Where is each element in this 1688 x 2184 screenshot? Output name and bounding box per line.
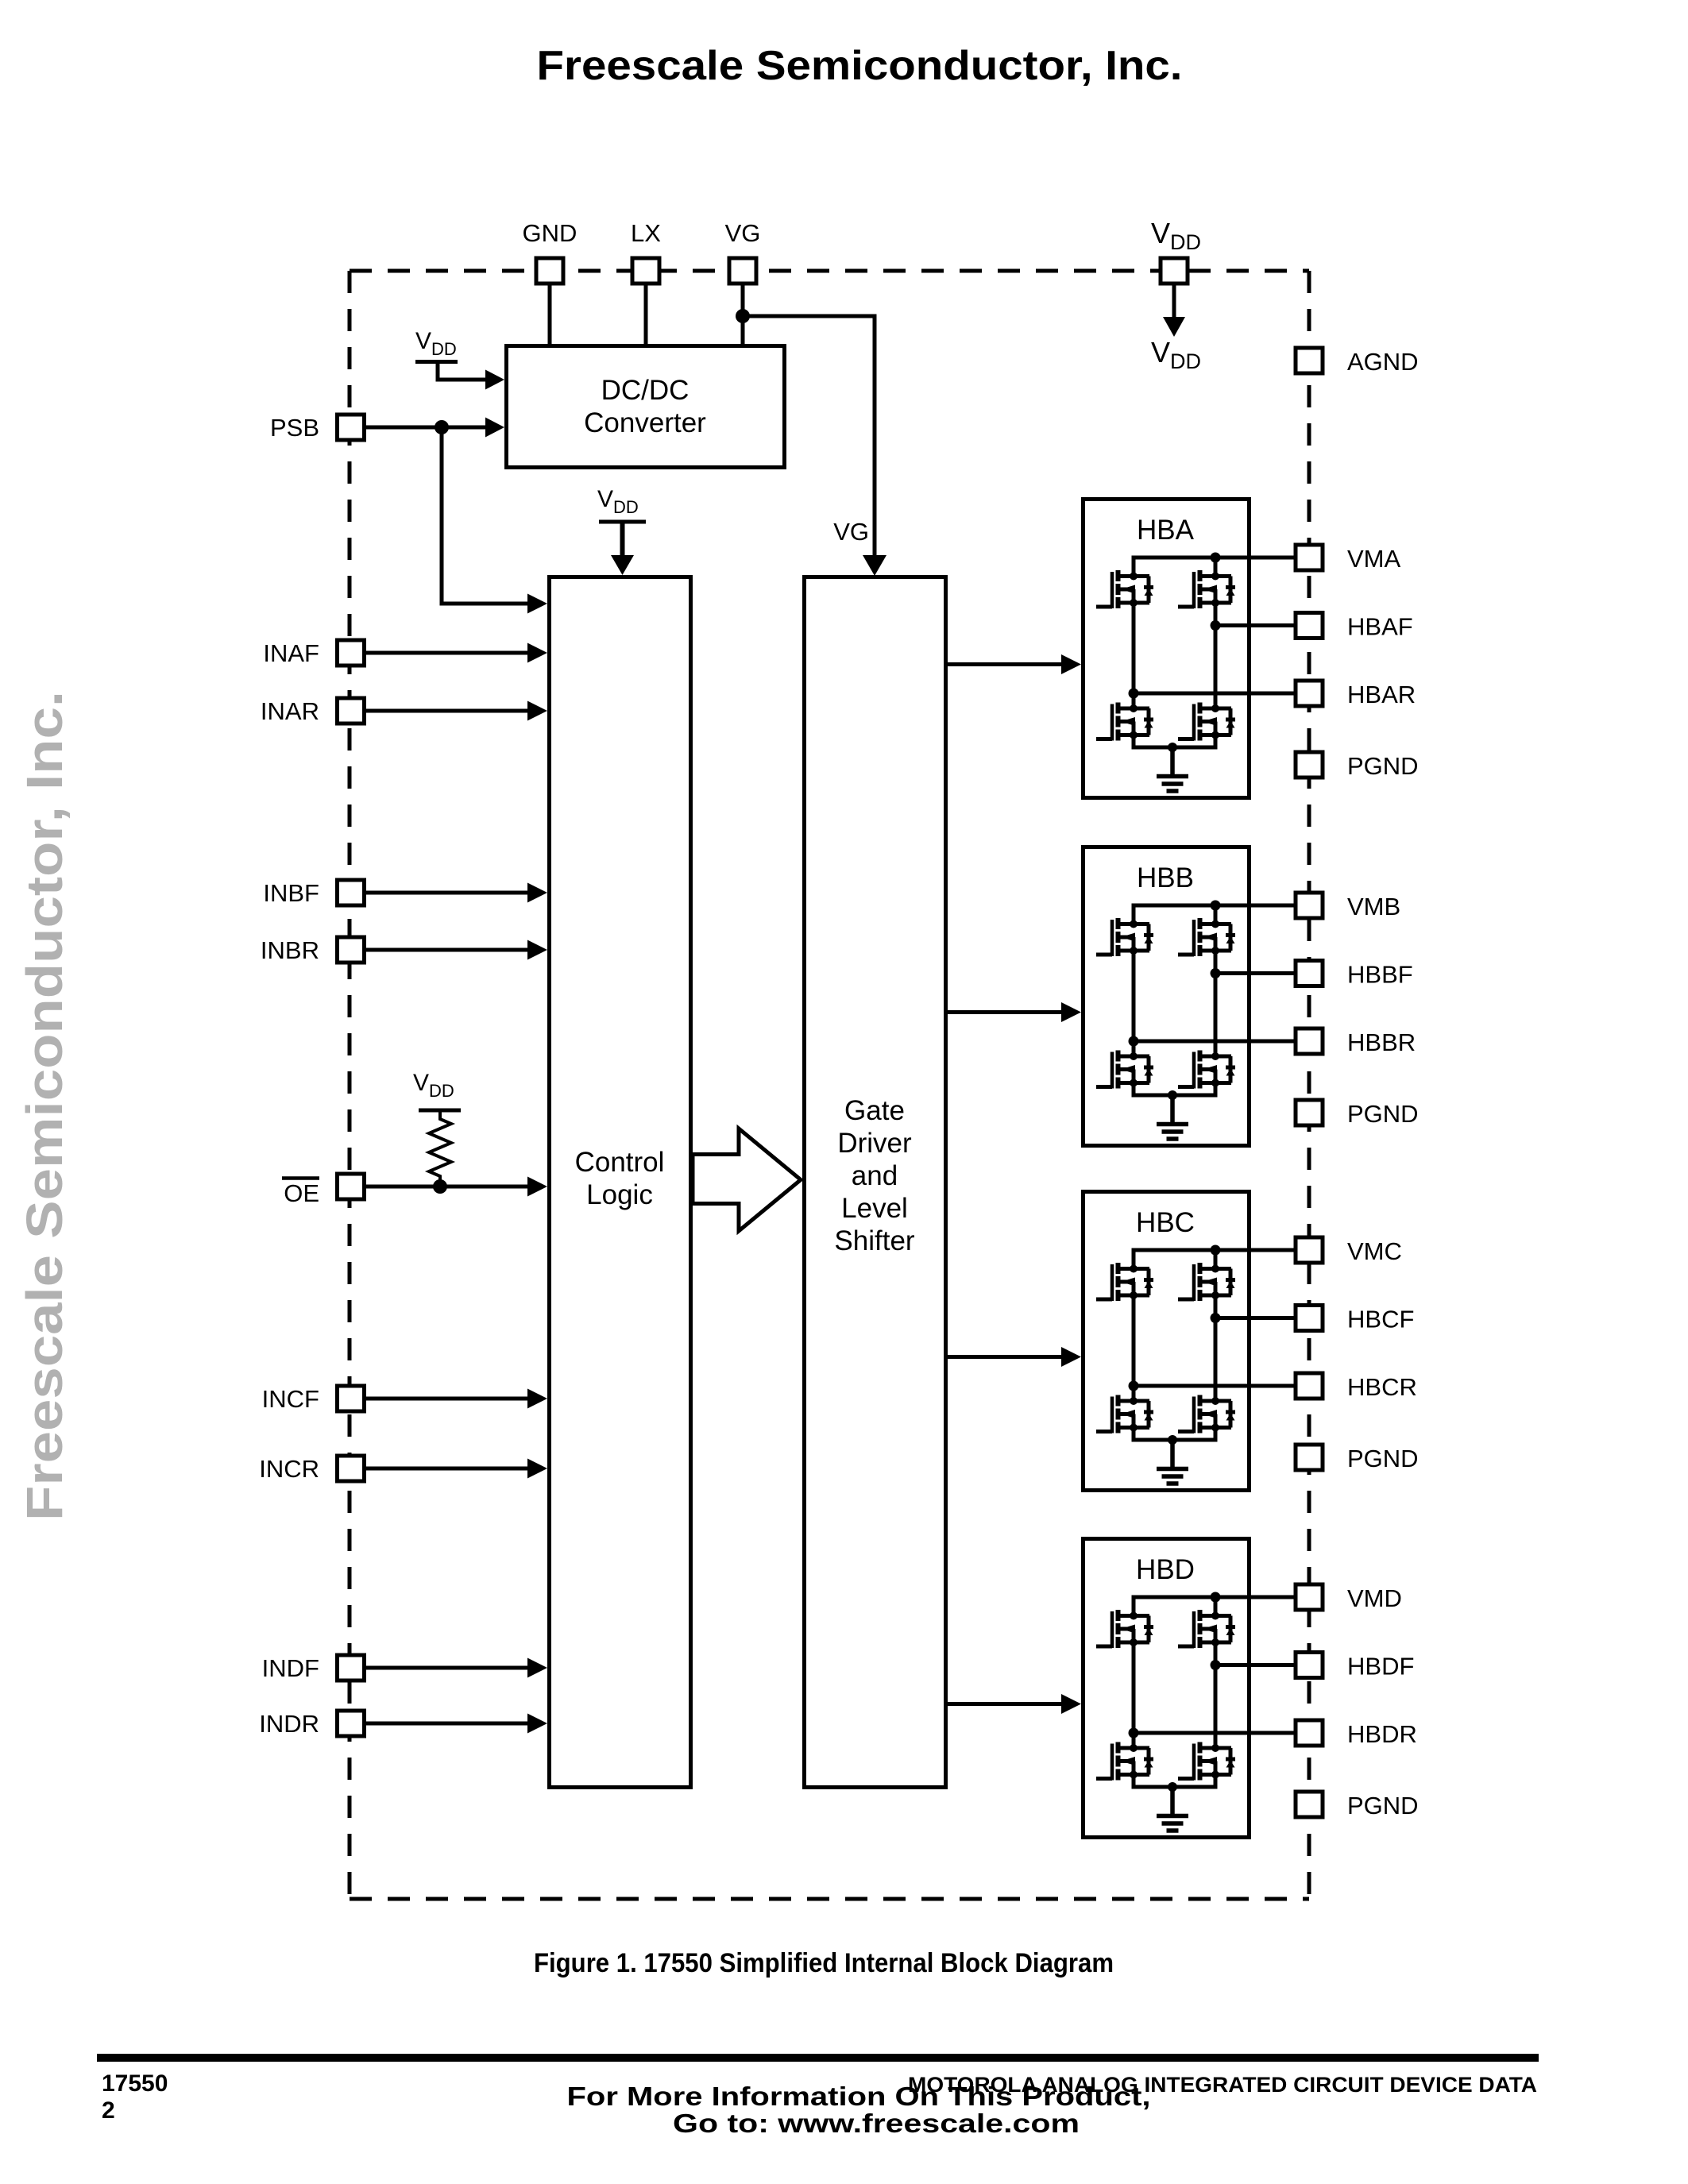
pin VMB [1296,893,1323,918]
wire VMA node [1134,558,1306,577]
svg-text:INDR: INDR [259,1710,319,1738]
svg-text:INCF: INCF [262,1385,319,1413]
svg-text:INBR: INBR [261,936,319,964]
wire HBC source bus [1134,1428,1215,1441]
resistor pull-up on OE [429,1111,451,1187]
transistor HBA high-side left [1096,570,1153,608]
transistor HBD high-side left [1096,1610,1153,1648]
svg-text:DC/DC: DC/DC [601,375,689,406]
ground HBB [1157,1095,1188,1139]
pin HBCF [1296,1306,1323,1331]
transistor HBB high-side left [1096,918,1153,956]
node HBC ground junction [1168,1435,1177,1445]
node HBDF junction [1211,1660,1221,1670]
pin INBR [338,937,365,963]
svg-text:Driver: Driver [837,1128,912,1159]
footer rule [97,2054,1539,2062]
svg-text:HBD: HBD [1136,1554,1195,1585]
wire VG to gate driver [743,316,875,557]
pin PSB [338,415,365,440]
control logic block [550,577,691,1788]
svg-text:PGND: PGND [1347,752,1419,780]
IC boundary left [348,271,352,1899]
pin HBCR [1296,1373,1323,1399]
svg-text:HBBR: HBBR [1347,1028,1416,1056]
node HBAF junction [1211,620,1221,631]
wire INDF to control logic [350,1666,528,1670]
node HBAR junction [1129,689,1139,699]
wire VMD node [1134,1597,1306,1616]
transistor HBA low-side left [1096,703,1153,741]
pin INAR [338,698,365,723]
wire OE to control logic [350,1185,528,1189]
svg-text:LX: LX [631,219,661,247]
svg-text:Figure 1. 17550 Simplified Int: Figure 1. 17550 Simplified Internal Bloc… [534,1948,1114,1978]
wire gate driver to HBB [948,1010,1062,1014]
svg-text:VMC: VMC [1347,1237,1402,1265]
pin VMA [1296,545,1323,570]
pin PGND [1296,1100,1323,1125]
pin INDF [338,1655,365,1680]
svg-text:VMD: VMD [1347,1584,1402,1612]
node VG junction [736,309,750,323]
wire HBBF node [1214,951,1218,1056]
svg-text:VMB: VMB [1347,893,1400,920]
svg-text:INAR: INAR [261,697,319,725]
wire HBBR node [1132,951,1136,1056]
IC boundary bottom [350,1897,1309,1901]
svg-text:INAF: INAF [263,639,319,667]
pin HBAF [1296,613,1323,639]
transistor HBA low-side right [1178,703,1235,741]
node VMB junction [1211,901,1221,911]
half-bridge block HBB [1083,847,1250,1146]
transistor HBD low-side left [1096,1742,1153,1781]
node HBDR junction [1129,1728,1139,1738]
transistor HBB high-side right [1178,918,1235,956]
pin VMD [1296,1584,1323,1610]
ground HBD [1157,1787,1188,1831]
wire INCF to control logic [350,1397,528,1401]
half-bridge block HBA [1083,500,1250,798]
wire HBDF node [1214,1642,1218,1748]
svg-text:AGND: AGND [1347,348,1419,376]
IC boundary right [1308,271,1311,1899]
node VMA junction [1211,553,1221,563]
pin PGND [1296,752,1323,778]
wire VMB node [1134,905,1306,924]
transistor HBC low-side left [1096,1395,1153,1433]
svg-text:HBDF: HBDF [1347,1653,1414,1680]
transistor HBD low-side right [1178,1742,1235,1781]
svg-text:Logic: Logic [586,1179,653,1210]
svg-text:OE: OE [284,1179,319,1207]
wire HBAR node [1132,603,1136,708]
svg-text:HBCR: HBCR [1347,1373,1417,1401]
wire HBD source bus [1134,1775,1215,1788]
pin LX [632,258,659,284]
svg-text:HBCF: HBCF [1347,1306,1414,1333]
svg-text:GND: GND [523,219,577,247]
wire HBB source bus [1134,1083,1215,1096]
IC boundary top [350,269,1309,273]
wire gate driver to HBA [948,662,1062,666]
pin PGND [1296,1445,1323,1470]
wire HBA source bus [1134,735,1215,748]
pin INDR [338,1711,365,1736]
pin HBAR [1296,681,1323,706]
svg-text:PGND: PGND [1347,1792,1419,1819]
gate driver block [805,577,946,1788]
wire INDR to control logic [350,1722,528,1726]
transistor HBA high-side right [1178,570,1235,608]
svg-text:INDF: INDF [262,1654,319,1682]
svg-text:Level: Level [841,1193,908,1224]
pin HBBR [1296,1028,1323,1054]
wire INAF to control logic [350,651,528,655]
wire PSB to DC/DC [350,426,486,430]
pin INCF [338,1386,365,1411]
transistor HBB low-side left [1096,1051,1153,1089]
pin INBF [338,880,365,905]
block arrow control-logic to gate-driver [693,1129,801,1231]
node VMC junction [1211,1245,1221,1256]
svg-text:HBDR: HBDR [1347,1720,1417,1748]
svg-text:PSB: PSB [270,414,319,442]
pin HBDF [1296,1653,1323,1678]
node HBBF junction [1211,968,1221,978]
wire INCR to control logic [350,1467,528,1471]
power symbol VDD pull-up [419,1109,461,1113]
wire HBCR node [1132,1295,1136,1401]
half-bridge block HBD [1083,1539,1250,1838]
svg-text:HBBF: HBBF [1347,961,1413,989]
pin OE [338,1174,365,1199]
node HBBR junction [1129,1036,1139,1047]
wire GND pin to DC/DC [548,271,552,344]
node PSB junction [435,420,449,434]
wire VMC node [1134,1250,1306,1269]
transistor HBC high-side left [1096,1263,1153,1301]
svg-text:VG: VG [725,219,761,247]
node HBCR junction [1129,1381,1139,1391]
svg-text:Freescale Semiconductor, Inc.: Freescale Semiconductor, Inc. [16,691,73,1521]
svg-text:2: 2 [102,2097,115,2124]
half-bridge block HBC [1083,1192,1250,1491]
wire INBR to control logic [350,948,528,952]
node OE junction [433,1179,447,1194]
svg-text:HBAR: HBAR [1347,681,1416,708]
pin PGND [1296,1792,1323,1817]
transistor HBD high-side right [1178,1610,1235,1648]
svg-text:VMA: VMA [1347,545,1401,573]
pin VDD [1161,258,1188,284]
svg-text:HBAF: HBAF [1347,613,1413,641]
wire HBCF node [1214,1295,1218,1401]
wire HBDR node [1132,1642,1136,1748]
transistor HBB low-side right [1178,1051,1235,1089]
svg-text:HBB: HBB [1137,862,1194,893]
pin GND [536,258,563,284]
wire VG pin to DC/DC [741,271,745,344]
svg-text:INCR: INCR [259,1455,319,1483]
svg-text:and: and [852,1160,898,1191]
svg-text:17550: 17550 [102,2070,168,2097]
svg-text:Freescale Semiconductor, Inc.: Freescale Semiconductor, Inc. [537,43,1183,89]
pin INCR [338,1456,365,1481]
ground HBC [1157,1440,1188,1484]
svg-text:INBF: INBF [263,879,319,907]
node HBCF junction [1211,1313,1221,1323]
svg-text:Shifter: Shifter [834,1225,914,1256]
svg-text:Gate: Gate [844,1095,905,1126]
svg-text:For More Information On This P: For More Information On This Product, [567,2082,1151,2111]
pin INAF [338,640,365,666]
svg-text:PGND: PGND [1347,1445,1419,1472]
DC/DC converter block [507,346,785,468]
svg-text:Go to: www.freescale.com: Go to: www.freescale.com [673,2109,1080,2138]
pin HBDR [1296,1720,1323,1746]
ground HBA [1157,747,1188,791]
svg-text:PGND: PGND [1347,1100,1419,1128]
pin HBBF [1296,961,1323,986]
transistor HBC low-side right [1178,1395,1235,1433]
svg-text:Converter: Converter [584,407,706,438]
power symbol VDD pin arrow [1172,271,1176,318]
wire INAR to control logic [350,709,528,713]
node VMD junction [1211,1592,1221,1603]
wire HBAF node [1214,603,1218,708]
node HBA ground junction [1168,743,1177,752]
wire gate driver to HBD [948,1702,1062,1706]
pin VMC [1296,1237,1323,1263]
wire gate driver to HBC [948,1355,1062,1359]
pin VG [729,258,756,284]
wire LX pin to DC/DC [644,271,648,344]
wire PSB to control logic [442,427,528,604]
node HBD ground junction [1168,1782,1177,1792]
svg-text:VG: VG [833,518,869,546]
transistor HBC high-side right [1178,1263,1235,1301]
wire INBF to control logic [350,891,528,895]
node HBB ground junction [1168,1090,1177,1100]
pin AGND [1296,348,1323,373]
svg-text:HBA: HBA [1137,515,1195,546]
svg-text:Control: Control [575,1147,665,1178]
svg-text:HBC: HBC [1136,1207,1195,1238]
